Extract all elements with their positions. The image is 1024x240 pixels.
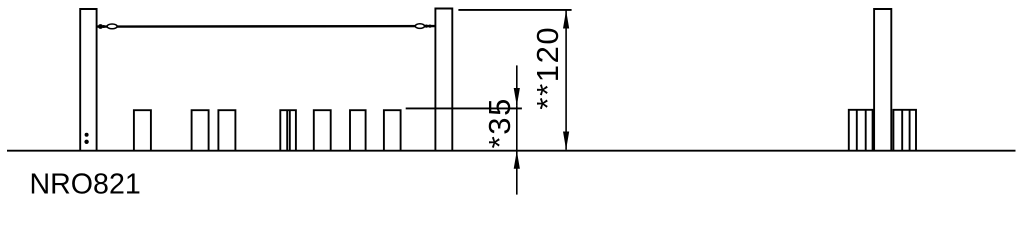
svg-text:NRO821: NRO821: [30, 169, 141, 201]
svg-text:**120: **120: [530, 26, 565, 110]
svg-text:*35: *35: [482, 97, 517, 148]
